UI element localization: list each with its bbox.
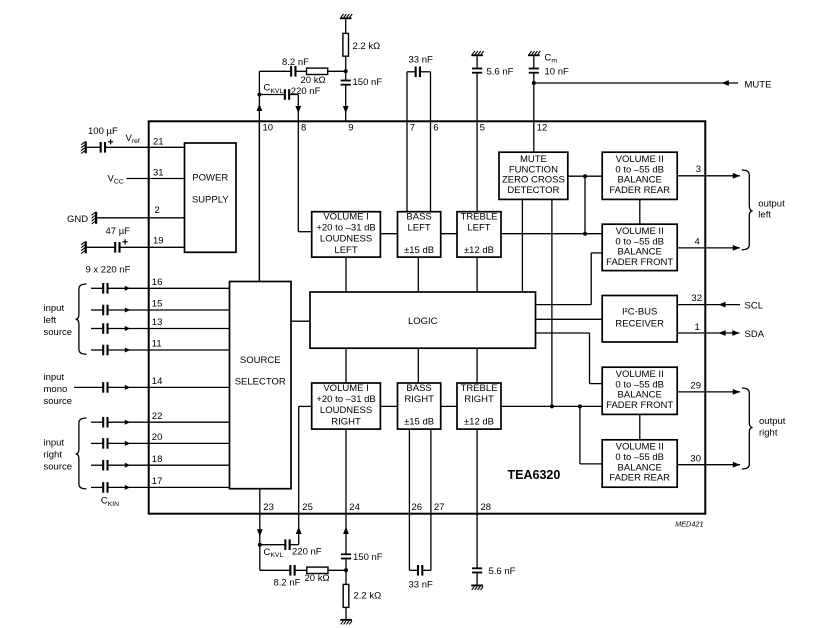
svg-text:+20 to –31 dB: +20 to –31 dB bbox=[316, 223, 375, 234]
svg-text:MED421: MED421 bbox=[675, 519, 703, 528]
svg-text:11: 11 bbox=[152, 339, 162, 350]
svg-text:25: 25 bbox=[302, 502, 313, 513]
svg-text:10: 10 bbox=[263, 123, 274, 134]
svg-text:BASS: BASS bbox=[406, 211, 431, 222]
svg-text:LEFT: LEFT bbox=[467, 223, 490, 234]
svg-text:LEFT: LEFT bbox=[407, 223, 430, 234]
svg-text:24: 24 bbox=[349, 502, 360, 513]
svg-text:left: left bbox=[44, 315, 57, 326]
svg-text:VOLUME II: VOLUME II bbox=[616, 154, 664, 165]
svg-text:9 x 220 nF: 9 x 220 nF bbox=[86, 265, 131, 276]
svg-text:22: 22 bbox=[152, 411, 163, 422]
svg-text:18: 18 bbox=[152, 454, 163, 465]
svg-text:15: 15 bbox=[152, 299, 163, 310]
svg-text:SUPPLY: SUPPLY bbox=[192, 194, 229, 205]
svg-text:8.2 nF: 8.2 nF bbox=[274, 578, 301, 589]
svg-text:MUTE: MUTE bbox=[520, 154, 547, 165]
svg-text:I²C-BUS: I²C-BUS bbox=[622, 307, 657, 318]
svg-text:BALANCE: BALANCE bbox=[618, 462, 662, 473]
svg-text:right: right bbox=[759, 427, 778, 438]
svg-text:23: 23 bbox=[263, 502, 274, 513]
svg-text:220 nF: 220 nF bbox=[292, 547, 322, 558]
svg-text:6: 6 bbox=[433, 123, 438, 134]
svg-text:±12 dB: ±12 dB bbox=[464, 245, 494, 256]
svg-text:BALANCE: BALANCE bbox=[618, 390, 662, 401]
svg-text:±15 dB: ±15 dB bbox=[404, 245, 434, 256]
svg-text:10 nF: 10 nF bbox=[545, 66, 569, 77]
svg-text:output: output bbox=[758, 198, 785, 209]
svg-text:TEA6320: TEA6320 bbox=[508, 468, 561, 482]
svg-text:input: input bbox=[44, 303, 65, 314]
svg-text:RIGHT: RIGHT bbox=[331, 416, 361, 427]
svg-text:GND: GND bbox=[67, 214, 88, 225]
svg-text:SOURCE: SOURCE bbox=[240, 355, 281, 366]
svg-text:14: 14 bbox=[152, 376, 163, 387]
svg-text:5.6 nF: 5.6 nF bbox=[487, 66, 514, 77]
svg-text:16: 16 bbox=[152, 277, 163, 288]
svg-text:POWER: POWER bbox=[192, 173, 228, 184]
svg-text:SCL: SCL bbox=[745, 301, 763, 312]
svg-text:RECEIVER: RECEIVER bbox=[615, 319, 664, 330]
svg-text:left: left bbox=[758, 210, 771, 221]
svg-text:+20 to –31 dB: +20 to –31 dB bbox=[316, 394, 375, 405]
svg-text:DETECTOR: DETECTOR bbox=[507, 185, 559, 196]
svg-text:13: 13 bbox=[152, 317, 163, 328]
svg-text:LOUDNESS: LOUDNESS bbox=[320, 405, 372, 416]
svg-text:source: source bbox=[44, 396, 73, 407]
svg-text:17: 17 bbox=[152, 476, 163, 487]
svg-text:ZERO CROSS: ZERO CROSS bbox=[502, 175, 565, 186]
svg-text:26: 26 bbox=[412, 502, 423, 513]
svg-text:BALANCE: BALANCE bbox=[618, 175, 662, 186]
svg-text:20 kΩ: 20 kΩ bbox=[301, 75, 326, 86]
svg-text:SDA: SDA bbox=[745, 329, 765, 340]
svg-text:150 nF: 150 nF bbox=[353, 77, 383, 88]
svg-text:29: 29 bbox=[690, 381, 701, 392]
svg-text:220 nF: 220 nF bbox=[291, 86, 321, 97]
svg-text:5: 5 bbox=[480, 123, 485, 134]
svg-text:28: 28 bbox=[481, 502, 492, 513]
svg-text:TREBLE: TREBLE bbox=[461, 211, 498, 222]
svg-text:SELECTOR: SELECTOR bbox=[235, 377, 286, 388]
svg-text:8: 8 bbox=[301, 123, 306, 134]
svg-text:33 nF: 33 nF bbox=[409, 54, 433, 65]
svg-text:2.2 kΩ: 2.2 kΩ bbox=[353, 41, 381, 52]
svg-text:FADER REAR: FADER REAR bbox=[609, 185, 670, 196]
svg-text:27: 27 bbox=[434, 502, 445, 513]
svg-text:TREBLE: TREBLE bbox=[461, 383, 498, 394]
svg-text:12: 12 bbox=[537, 123, 548, 134]
svg-text:BASS: BASS bbox=[406, 383, 431, 394]
svg-text:input: input bbox=[44, 372, 65, 383]
svg-text:47 µF: 47 µF bbox=[106, 226, 131, 237]
svg-text:FADER FRONT: FADER FRONT bbox=[606, 257, 673, 268]
svg-text:VOLUME II: VOLUME II bbox=[616, 369, 664, 380]
svg-text:31: 31 bbox=[153, 168, 164, 179]
svg-text:source: source bbox=[44, 327, 73, 338]
svg-text:source: source bbox=[44, 462, 73, 473]
svg-text:LEFT: LEFT bbox=[334, 245, 357, 256]
svg-text:FADER REAR: FADER REAR bbox=[609, 473, 670, 484]
svg-text:3: 3 bbox=[696, 164, 701, 175]
svg-text:input: input bbox=[44, 438, 65, 449]
svg-text:2: 2 bbox=[155, 205, 160, 216]
svg-text:RIGHT: RIGHT bbox=[404, 394, 434, 405]
svg-text:20: 20 bbox=[152, 432, 163, 443]
svg-text:5.6 nF: 5.6 nF bbox=[489, 566, 516, 577]
svg-text:MUTE: MUTE bbox=[745, 79, 772, 90]
svg-text:19: 19 bbox=[153, 235, 164, 246]
svg-text:100 µF: 100 µF bbox=[88, 126, 118, 137]
svg-text:7: 7 bbox=[410, 123, 415, 134]
svg-text:LOUDNESS: LOUDNESS bbox=[320, 234, 372, 245]
svg-text:33 nF: 33 nF bbox=[409, 580, 433, 591]
svg-text:20 kΩ: 20 kΩ bbox=[305, 573, 330, 584]
svg-text:BALANCE: BALANCE bbox=[618, 247, 662, 258]
svg-text:±12 dB: ±12 dB bbox=[464, 416, 494, 427]
svg-text:±15 dB: ±15 dB bbox=[404, 416, 434, 427]
svg-text:VOLUME I: VOLUME I bbox=[323, 211, 368, 222]
svg-text:right: right bbox=[44, 450, 63, 461]
svg-text:mono: mono bbox=[44, 384, 68, 395]
svg-text:2.2 kΩ: 2.2 kΩ bbox=[354, 590, 382, 601]
svg-text:32: 32 bbox=[691, 293, 702, 304]
svg-text:30: 30 bbox=[690, 453, 701, 464]
svg-text:LOGIC: LOGIC bbox=[408, 316, 438, 327]
svg-text:1: 1 bbox=[695, 322, 700, 333]
svg-text:output: output bbox=[759, 416, 786, 427]
svg-text:RIGHT: RIGHT bbox=[464, 394, 494, 405]
svg-text:150 nF: 150 nF bbox=[353, 552, 383, 563]
svg-text:9: 9 bbox=[348, 123, 353, 134]
svg-text:4: 4 bbox=[695, 237, 700, 248]
svg-text:VOLUME I: VOLUME I bbox=[323, 383, 368, 394]
svg-text:FADER FRONT: FADER FRONT bbox=[606, 400, 673, 411]
svg-text:VOLUME II: VOLUME II bbox=[616, 226, 664, 237]
svg-text:VOLUME II: VOLUME II bbox=[616, 442, 664, 453]
svg-text:21: 21 bbox=[153, 137, 164, 148]
